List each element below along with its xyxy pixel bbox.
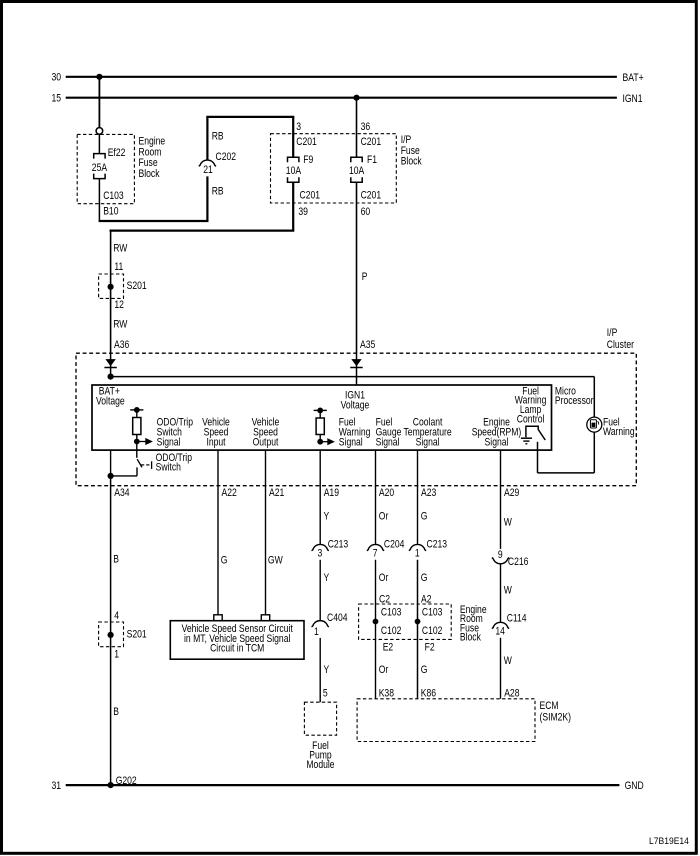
svg-text:A34: A34 [114, 487, 129, 499]
wire Y between C213 and C404 [319, 560, 321, 621]
connector C202 pin 21 [199, 160, 216, 166]
fuse F1 10A [351, 157, 362, 162]
wire Or to ECM [375, 560, 377, 699]
wire W to ECM [500, 638, 502, 699]
svg-text:Warning: Warning [603, 426, 635, 438]
svg-text:C201: C201 [300, 190, 321, 202]
wire 39 horizontal to RW column [110, 230, 295, 232]
svg-text:K38: K38 [379, 688, 394, 700]
svg-text:G: G [421, 572, 428, 584]
svg-text:W: W [504, 655, 513, 667]
svg-text:4: 4 [114, 610, 119, 622]
svg-text:A22: A22 [222, 487, 237, 499]
fuel pump icon inside lamp [590, 420, 596, 428]
wire A19 to C213 [319, 450, 321, 544]
svg-text:Y: Y [324, 664, 330, 676]
splice S201 lower dashed box [99, 622, 124, 647]
wire RB vertical below C202 [206, 176, 208, 221]
svg-text:Or: Or [379, 572, 389, 584]
svg-text:Or: Or [379, 510, 389, 522]
wire RW from 39 to cluster A36 [110, 231, 112, 354]
svg-text:Signal: Signal [416, 437, 440, 449]
svg-text:Block: Block [401, 156, 422, 168]
svg-text:C114: C114 [507, 613, 527, 625]
wire ODO signal through box bottom [136, 442, 138, 458]
wire A35 to inner box [356, 353, 358, 385]
wire W between C216 and C114 [500, 564, 502, 622]
node junction on rail 30 [96, 74, 102, 80]
svg-text:11: 11 [114, 261, 123, 273]
svg-text:Cluster: Cluster [607, 339, 634, 351]
wire A23 to C213 [417, 450, 419, 544]
svg-text:C216: C216 [508, 556, 529, 568]
svg-text:W: W [504, 584, 513, 596]
svg-text:G202: G202 [116, 775, 137, 787]
svg-text:C103: C103 [381, 607, 402, 619]
svg-text:39: 39 [298, 206, 308, 218]
svg-text:Control: Control [517, 414, 545, 426]
wire BAT+ drop to fuse Ef22 [98, 77, 100, 128]
svg-text:Switch: Switch [156, 461, 181, 473]
svg-text:C404: C404 [327, 612, 348, 624]
svg-text:Module: Module [306, 759, 334, 771]
svg-text:10A: 10A [286, 165, 302, 177]
wire into fuse Ef22 [98, 134, 100, 153]
svg-text:K86: K86 [421, 688, 436, 700]
svg-text:9: 9 [498, 549, 503, 561]
pin arrow A36 into cluster [105, 359, 115, 366]
svg-text:B10: B10 [103, 206, 118, 218]
svg-text:GW: GW [268, 554, 283, 566]
fuse F9 10A [288, 157, 299, 162]
svg-text:Y: Y [324, 510, 330, 522]
svg-text:12: 12 [114, 299, 124, 311]
svg-text:3: 3 [318, 547, 323, 559]
svg-text:Circuit in TCM: Circuit in TCM [210, 642, 264, 654]
svg-text:25A: 25A [92, 162, 108, 174]
resistor pull-up fuel warning [314, 409, 327, 411]
svg-text:1: 1 [415, 547, 420, 559]
svg-text:Signal: Signal [157, 437, 181, 449]
svg-text:Block: Block [139, 168, 160, 180]
node ODO signal [134, 439, 140, 445]
connector terminal open circle [96, 128, 103, 135]
svg-text:C213: C213 [427, 539, 448, 551]
svg-text:W: W [504, 516, 513, 528]
wire B10 horizontal to RB column [99, 220, 209, 222]
connector C204 pin 7 [367, 544, 384, 550]
wire fuse Ef22 output down [98, 179, 100, 221]
node C103-C102 junction G [415, 619, 421, 625]
I/P fuse block dashed box [271, 134, 397, 203]
wire switch lower terminal [136, 467, 138, 476]
svg-text:RW: RW [113, 242, 128, 254]
svg-text:A35: A35 [360, 339, 375, 351]
arrow ODO/Trip Switch Signal [137, 441, 146, 443]
svg-text:A28: A28 [504, 688, 519, 700]
svg-text:RW: RW [113, 318, 128, 330]
wire A20 to C204 [375, 450, 377, 544]
svg-text:Signal: Signal [485, 437, 509, 449]
svg-text:10A: 10A [349, 165, 365, 177]
connector C216 pin 9 [492, 558, 509, 564]
svg-text:C102: C102 [381, 625, 402, 637]
switch fuel warning lamp control [526, 426, 538, 437]
pin arrow A35 into cluster [351, 359, 361, 366]
arrow Fuel Warning Signal [320, 441, 328, 443]
svg-text:A19: A19 [324, 487, 339, 499]
connector C404 pin 1 [312, 621, 329, 627]
fuel warning lamp circle [587, 417, 602, 432]
node C103-C102 junction Or [373, 619, 379, 625]
wire RB top horizontal [206, 116, 294, 118]
svg-text:A36: A36 [114, 339, 129, 351]
wire BAT+ rail to fuel warning lamp [111, 376, 595, 378]
svg-text:Ef22: Ef22 [108, 147, 126, 159]
svg-text:C204: C204 [384, 539, 405, 551]
svg-text:7: 7 [373, 547, 378, 559]
svg-text:1: 1 [314, 626, 319, 638]
terminal square A22 [214, 615, 222, 621]
wire switch output down [537, 442, 539, 473]
vehicle speed sensor circuit box [170, 621, 304, 660]
ODO/Trip switch blade [137, 459, 142, 467]
svg-text:S201: S201 [127, 280, 147, 292]
svg-text:P: P [362, 271, 368, 283]
wire A36 to BAT+ node [110, 353, 112, 376]
svg-text:A20: A20 [379, 487, 394, 499]
svg-text:5: 5 [323, 688, 328, 700]
svg-text:C102: C102 [422, 625, 443, 637]
svg-text:1: 1 [114, 648, 119, 660]
svg-text:Signal: Signal [376, 437, 400, 449]
terminal square A21 [261, 615, 269, 621]
wire Y to fuel pump module [319, 638, 321, 702]
wire RB vertical above C202 [206, 117, 208, 160]
svg-text:RB: RB [212, 131, 224, 143]
svg-text:31: 31 [52, 780, 62, 792]
svg-text:C103: C103 [422, 607, 443, 619]
svg-text:B: B [113, 706, 119, 718]
svg-text:E2: E2 [383, 642, 394, 654]
svg-text:C201: C201 [361, 190, 382, 202]
ODO/Trip switch actuator dashes [141, 464, 144, 466]
fuse Ef22 25A [94, 154, 105, 159]
wire A22 to VSS box [217, 450, 219, 615]
ECM dashed box [357, 699, 535, 742]
svg-text:C201: C201 [296, 136, 317, 148]
svg-text:C213: C213 [328, 539, 349, 551]
wire lamp to return [593, 432, 595, 473]
svg-text:F9: F9 [303, 154, 313, 166]
engine room fuse block 2 dashed box [359, 604, 452, 639]
splice S201 junction dot [108, 284, 114, 290]
wire lamp return horizontal [538, 472, 595, 474]
node fuel warning signal [317, 439, 323, 445]
svg-text:C202: C202 [216, 151, 237, 163]
svg-text:3: 3 [296, 121, 301, 133]
connector C213 pin 3 [312, 544, 329, 550]
svg-text:G: G [221, 554, 228, 566]
svg-text:C201: C201 [361, 136, 382, 148]
svg-text:Output: Output [253, 437, 279, 449]
wire rail 30 BAT+ [66, 76, 617, 78]
svg-text:36: 36 [361, 121, 371, 133]
svg-text:C103: C103 [103, 190, 124, 202]
svg-text:Processor: Processor [555, 395, 594, 407]
svg-text:Y: Y [324, 572, 330, 584]
svg-text:A23: A23 [421, 487, 436, 499]
svg-text:ECM: ECM [540, 700, 559, 712]
connector C114 pin 14 [492, 622, 509, 628]
svg-text:30: 30 [52, 72, 62, 84]
svg-text:(SIM2K): (SIM2K) [540, 712, 572, 724]
svg-text:B: B [113, 553, 119, 565]
wire G to ECM [417, 560, 419, 699]
wire A29 to C216 [500, 450, 502, 549]
svg-text:I/P: I/P [607, 327, 618, 339]
svg-text:Voltage: Voltage [96, 396, 125, 408]
svg-text:Voltage: Voltage [341, 399, 370, 411]
resistor pull-up ODO/Trip [130, 409, 143, 411]
svg-text:L7B19E14: L7B19E14 [649, 836, 689, 846]
wire IGN1 drop to fuse F1 [356, 98, 358, 158]
node G202 ground junction [108, 782, 114, 788]
svg-text:IGN1: IGN1 [623, 93, 643, 105]
splice S201 lower junction dot [108, 632, 114, 638]
wire A34 stub from box [110, 450, 112, 476]
cluster inner circuit box [92, 385, 552, 450]
svg-text:Input: Input [206, 437, 225, 449]
svg-text:Or: Or [379, 664, 389, 676]
svg-text:60: 60 [361, 206, 371, 218]
svg-text:Signal: Signal [339, 437, 363, 449]
svg-text:Block: Block [460, 632, 481, 644]
svg-text:BAT+: BAT+ [623, 72, 644, 84]
svg-text:GND: GND [625, 780, 644, 792]
wire resistor to signal node [136, 435, 138, 442]
wire lamp feed down [593, 377, 595, 418]
I/P cluster dashed box [76, 353, 636, 486]
svg-text:F1: F1 [367, 154, 377, 166]
wire switch to A34 column [111, 475, 137, 477]
fuel pump module dashed box [304, 702, 336, 735]
svg-text:A21: A21 [269, 487, 284, 499]
wire down to fuse F9 pin 3 [292, 117, 294, 157]
wire A34 to G202 [110, 476, 112, 785]
ground symbol inside cluster [521, 437, 532, 439]
node A34 junction [108, 473, 114, 479]
node junction on rail 15 [353, 95, 359, 101]
wire resistor to fuel warning signal node [319, 435, 321, 442]
svg-text:15: 15 [52, 93, 62, 105]
svg-text:RB: RB [212, 185, 224, 197]
svg-text:G: G [421, 664, 428, 676]
splice S201 dashed box [99, 274, 124, 298]
svg-text:14: 14 [495, 626, 505, 638]
svg-text:A29: A29 [504, 487, 519, 499]
wire F9 output down [292, 182, 294, 230]
connector C213 pin 1 [409, 544, 426, 550]
svg-text:F2: F2 [425, 642, 435, 654]
wire rail 15 IGN1 [66, 97, 617, 99]
wire P from F1 to cluster A35 [356, 182, 358, 353]
svg-text:S201: S201 [127, 629, 147, 641]
svg-text:G: G [421, 510, 428, 522]
wire A21 to VSS box [265, 450, 267, 615]
svg-text:21: 21 [203, 164, 213, 176]
wire rail 31 GND [66, 784, 620, 786]
engine room fuse block 1 dashed box [77, 134, 134, 203]
node BAT+ inside cluster [108, 374, 114, 380]
